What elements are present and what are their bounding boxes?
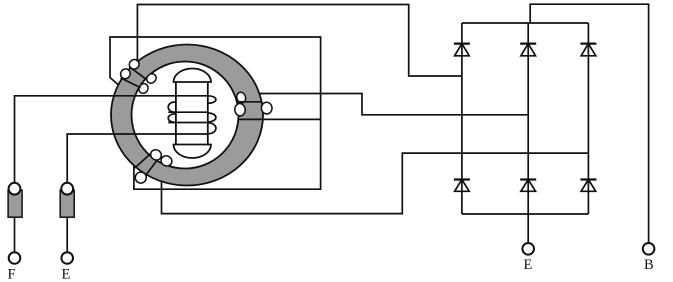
field winding right loop 2	[208, 113, 216, 122]
top-left stator coil outer loop 1	[127, 57, 141, 71]
rectifier top bus	[462, 22, 589, 24]
right stator coil crossing line 1	[238, 101, 263, 103]
diode D6	[580, 180, 596, 192]
bottom-left stator coil inner loop 1	[149, 148, 164, 163]
top-left stator coil inner loop 2	[137, 82, 150, 95]
diode D4	[454, 180, 470, 192]
svg-text:E: E	[524, 257, 533, 273]
field winding left loop 1	[168, 102, 175, 112]
brush E body	[60, 183, 74, 217]
svg-text:E: E	[62, 267, 71, 282]
field winding right loop 3	[208, 123, 216, 134]
field winding turn 3	[168, 122, 207, 124]
rotor top dome	[174, 69, 212, 83]
wire star frame: top-left coil bevel lead	[110, 37, 321, 189]
terminal F circle	[9, 252, 21, 264]
terminal B circle	[643, 243, 655, 255]
wire E ground lead	[527, 214, 529, 243]
rectifier column 3	[587, 23, 589, 214]
rotor body	[174, 69, 212, 159]
top-left stator coil crossing line 2	[121, 78, 141, 88]
bottom-left stator coil inner loop 2	[159, 154, 173, 168]
wire B+ output from top bus	[530, 4, 648, 243]
diode D1	[454, 44, 470, 56]
wire phase 3: bottom-left coil to rectifier column 3	[162, 153, 589, 214]
bottom-left stator coil outer loop	[133, 170, 148, 185]
stator ring inner	[132, 62, 239, 169]
rectifier bottom bus	[462, 213, 589, 215]
right stator coil inner loop 2	[234, 103, 246, 116]
terminal E right circle	[522, 243, 534, 255]
top-left stator coil outer loop 2	[119, 67, 132, 81]
stator ring outer	[111, 45, 263, 186]
svg-text:F: F	[8, 267, 16, 282]
field winding turn 2	[168, 111, 207, 113]
diode D3	[580, 44, 596, 56]
right stator coil inner loop 1	[235, 91, 246, 104]
wire E terminal lead	[66, 217, 68, 252]
brush F body	[8, 183, 22, 217]
right stator coil outer loop	[261, 102, 273, 115]
rotor bottom dome	[174, 145, 212, 159]
wire phase 1: top-left coil to rectifier column 1	[137, 5, 462, 77]
terminal E left circle	[61, 252, 73, 264]
diode D2	[520, 44, 536, 56]
diode D5	[520, 180, 536, 192]
bottom-left stator coil crossing line 2	[145, 160, 157, 176]
wire F lead horizontal / field winding turn 1	[15, 96, 208, 182]
wire phase 2: right coil to rectifier column 2	[259, 94, 528, 115]
wire F terminal lead	[14, 217, 16, 252]
wire E lead horizontal / field winding turn 4	[67, 134, 207, 182]
top-left stator coil inner loop 1	[145, 72, 158, 85]
field winding right loop 1	[208, 96, 216, 104]
rectifier column 1	[461, 23, 463, 214]
right stator coil crossing line 2 and lead to star vertical	[238, 118, 320, 120]
rectifier column 2	[527, 23, 529, 214]
bottom-left stator coil crossing line 1	[135, 154, 151, 168]
top-left stator coil crossing line 1	[129, 67, 146, 80]
svg-text:B: B	[644, 257, 654, 273]
field winding left loop 2	[168, 114, 175, 122]
